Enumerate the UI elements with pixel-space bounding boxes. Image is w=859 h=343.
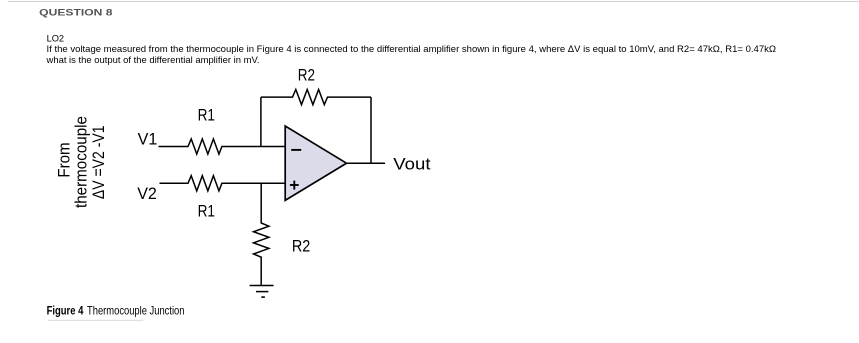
svg-text:R1: R1: [198, 106, 215, 125]
svg-text:what is the output of the diff: what is the output of the differential a…: [46, 55, 260, 66]
svg-text:Figure 4: Figure 4: [47, 305, 84, 318]
svg-text:R1: R1: [198, 202, 215, 221]
svg-text:R2: R2: [292, 236, 310, 255]
svg-text:V1: V1: [138, 130, 158, 149]
svg-text:thermocouple: thermocouple: [71, 116, 90, 208]
svg-text:Thermocouple Junction: Thermocouple Junction: [87, 305, 185, 318]
svg-text:V2: V2: [137, 184, 157, 203]
svg-text:Vout: Vout: [393, 154, 430, 173]
svg-text:ΔV =V2 -V1: ΔV =V2 -V1: [89, 126, 108, 200]
svg-text:LO2: LO2: [47, 34, 65, 45]
svg-text:If the voltage measured from t: If the voltage measured from the thermoc…: [47, 44, 777, 55]
svg-text:QUESTION 8: QUESTION 8: [39, 7, 112, 17]
svg-text:R2: R2: [298, 65, 315, 84]
